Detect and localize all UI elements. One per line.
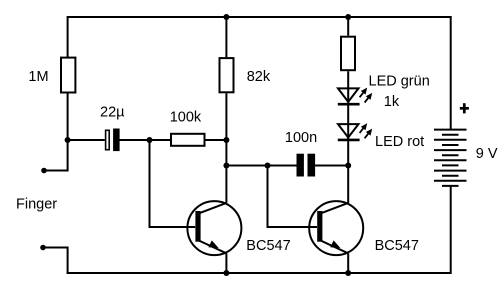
svg-text:82k: 82k: [247, 69, 271, 85]
wire 1k through LEDs to node D: [347, 71, 349, 165]
capacitor C2 100n: [297, 154, 316, 177]
svg-text:BC547: BC547: [246, 238, 290, 254]
svg-text:LED rot: LED rot: [375, 134, 424, 150]
transistor Q2 BC547: [309, 201, 363, 255]
node junction Q2 emitter ground: [345, 270, 351, 276]
svg-text:100k: 100k: [170, 109, 202, 125]
svg-text:22µ: 22µ: [100, 105, 125, 121]
node finger top terminal: [41, 168, 47, 174]
wire Q2 base branch: [268, 166, 318, 228]
svg-text:1M: 1M: [28, 69, 48, 85]
transistor Q1 BC547: [187, 201, 241, 255]
wire 1M bottom lead to node A: [67, 93, 69, 140]
svg-text:9 V: 9 V: [476, 146, 498, 162]
capacitor C1 22u electrolytic: [106, 129, 120, 152]
svg-text:LED grün: LED grün: [369, 74, 430, 90]
svg-text:1k: 1k: [384, 94, 400, 110]
wire node C to 100n cap: [226, 165, 296, 167]
wire 82k top lead: [225, 16, 227, 57]
wire Q2 collector lead: [347, 166, 349, 203]
wire LED branch from top rail to 1k: [347, 16, 349, 36]
node junction Q1 emitter ground: [223, 270, 229, 276]
node junction Q1 base branch: [147, 137, 153, 143]
wire Q1 emitter to ground rail: [225, 253, 227, 273]
wire bottom rail: [67, 272, 451, 274]
resistor R1 1M: [61, 58, 75, 93]
LED D1 green: [338, 88, 372, 105]
battery B1 9V: [434, 130, 467, 186]
wire Q1 base branch: [150, 140, 196, 227]
node D junction LED/Q2 collector: [345, 163, 351, 169]
wire finger top terminal link: [44, 140, 68, 171]
wire 22u cap to 100k: [120, 139, 171, 141]
node C junction Q1 collector/100n: [223, 163, 229, 169]
node finger bottom terminal: [40, 245, 46, 251]
node junction Q2 base branch: [265, 163, 271, 169]
wire 82k bottom lead to Q1 collector: [225, 93, 227, 203]
battery plus sign: [460, 103, 469, 113]
wire 100n cap to node D: [315, 165, 348, 167]
node junction top rail LED branch: [345, 14, 351, 20]
resistor R2 82k: [220, 58, 234, 92]
svg-text:Finger: Finger: [16, 197, 57, 213]
node A junction 1M/22u/finger: [65, 137, 71, 143]
svg-text:BC547: BC547: [375, 238, 419, 254]
node B junction 100k/82k: [223, 137, 229, 143]
svg-text:100n: 100n: [285, 130, 317, 146]
wire Q2 emitter to ground rail: [347, 253, 349, 273]
wire finger bottom terminal link: [43, 248, 68, 275]
resistor R4 1k: [341, 37, 355, 70]
resistor R3 100k: [171, 134, 205, 146]
wire battery bottom lead: [450, 186, 452, 274]
wire 100k to node B: [206, 139, 227, 141]
wire node A to 22u cap: [67, 139, 105, 141]
LED D2 red: [338, 123, 372, 140]
wire top rail: [68, 17, 451, 130]
node junction top rail 82k: [223, 14, 229, 20]
